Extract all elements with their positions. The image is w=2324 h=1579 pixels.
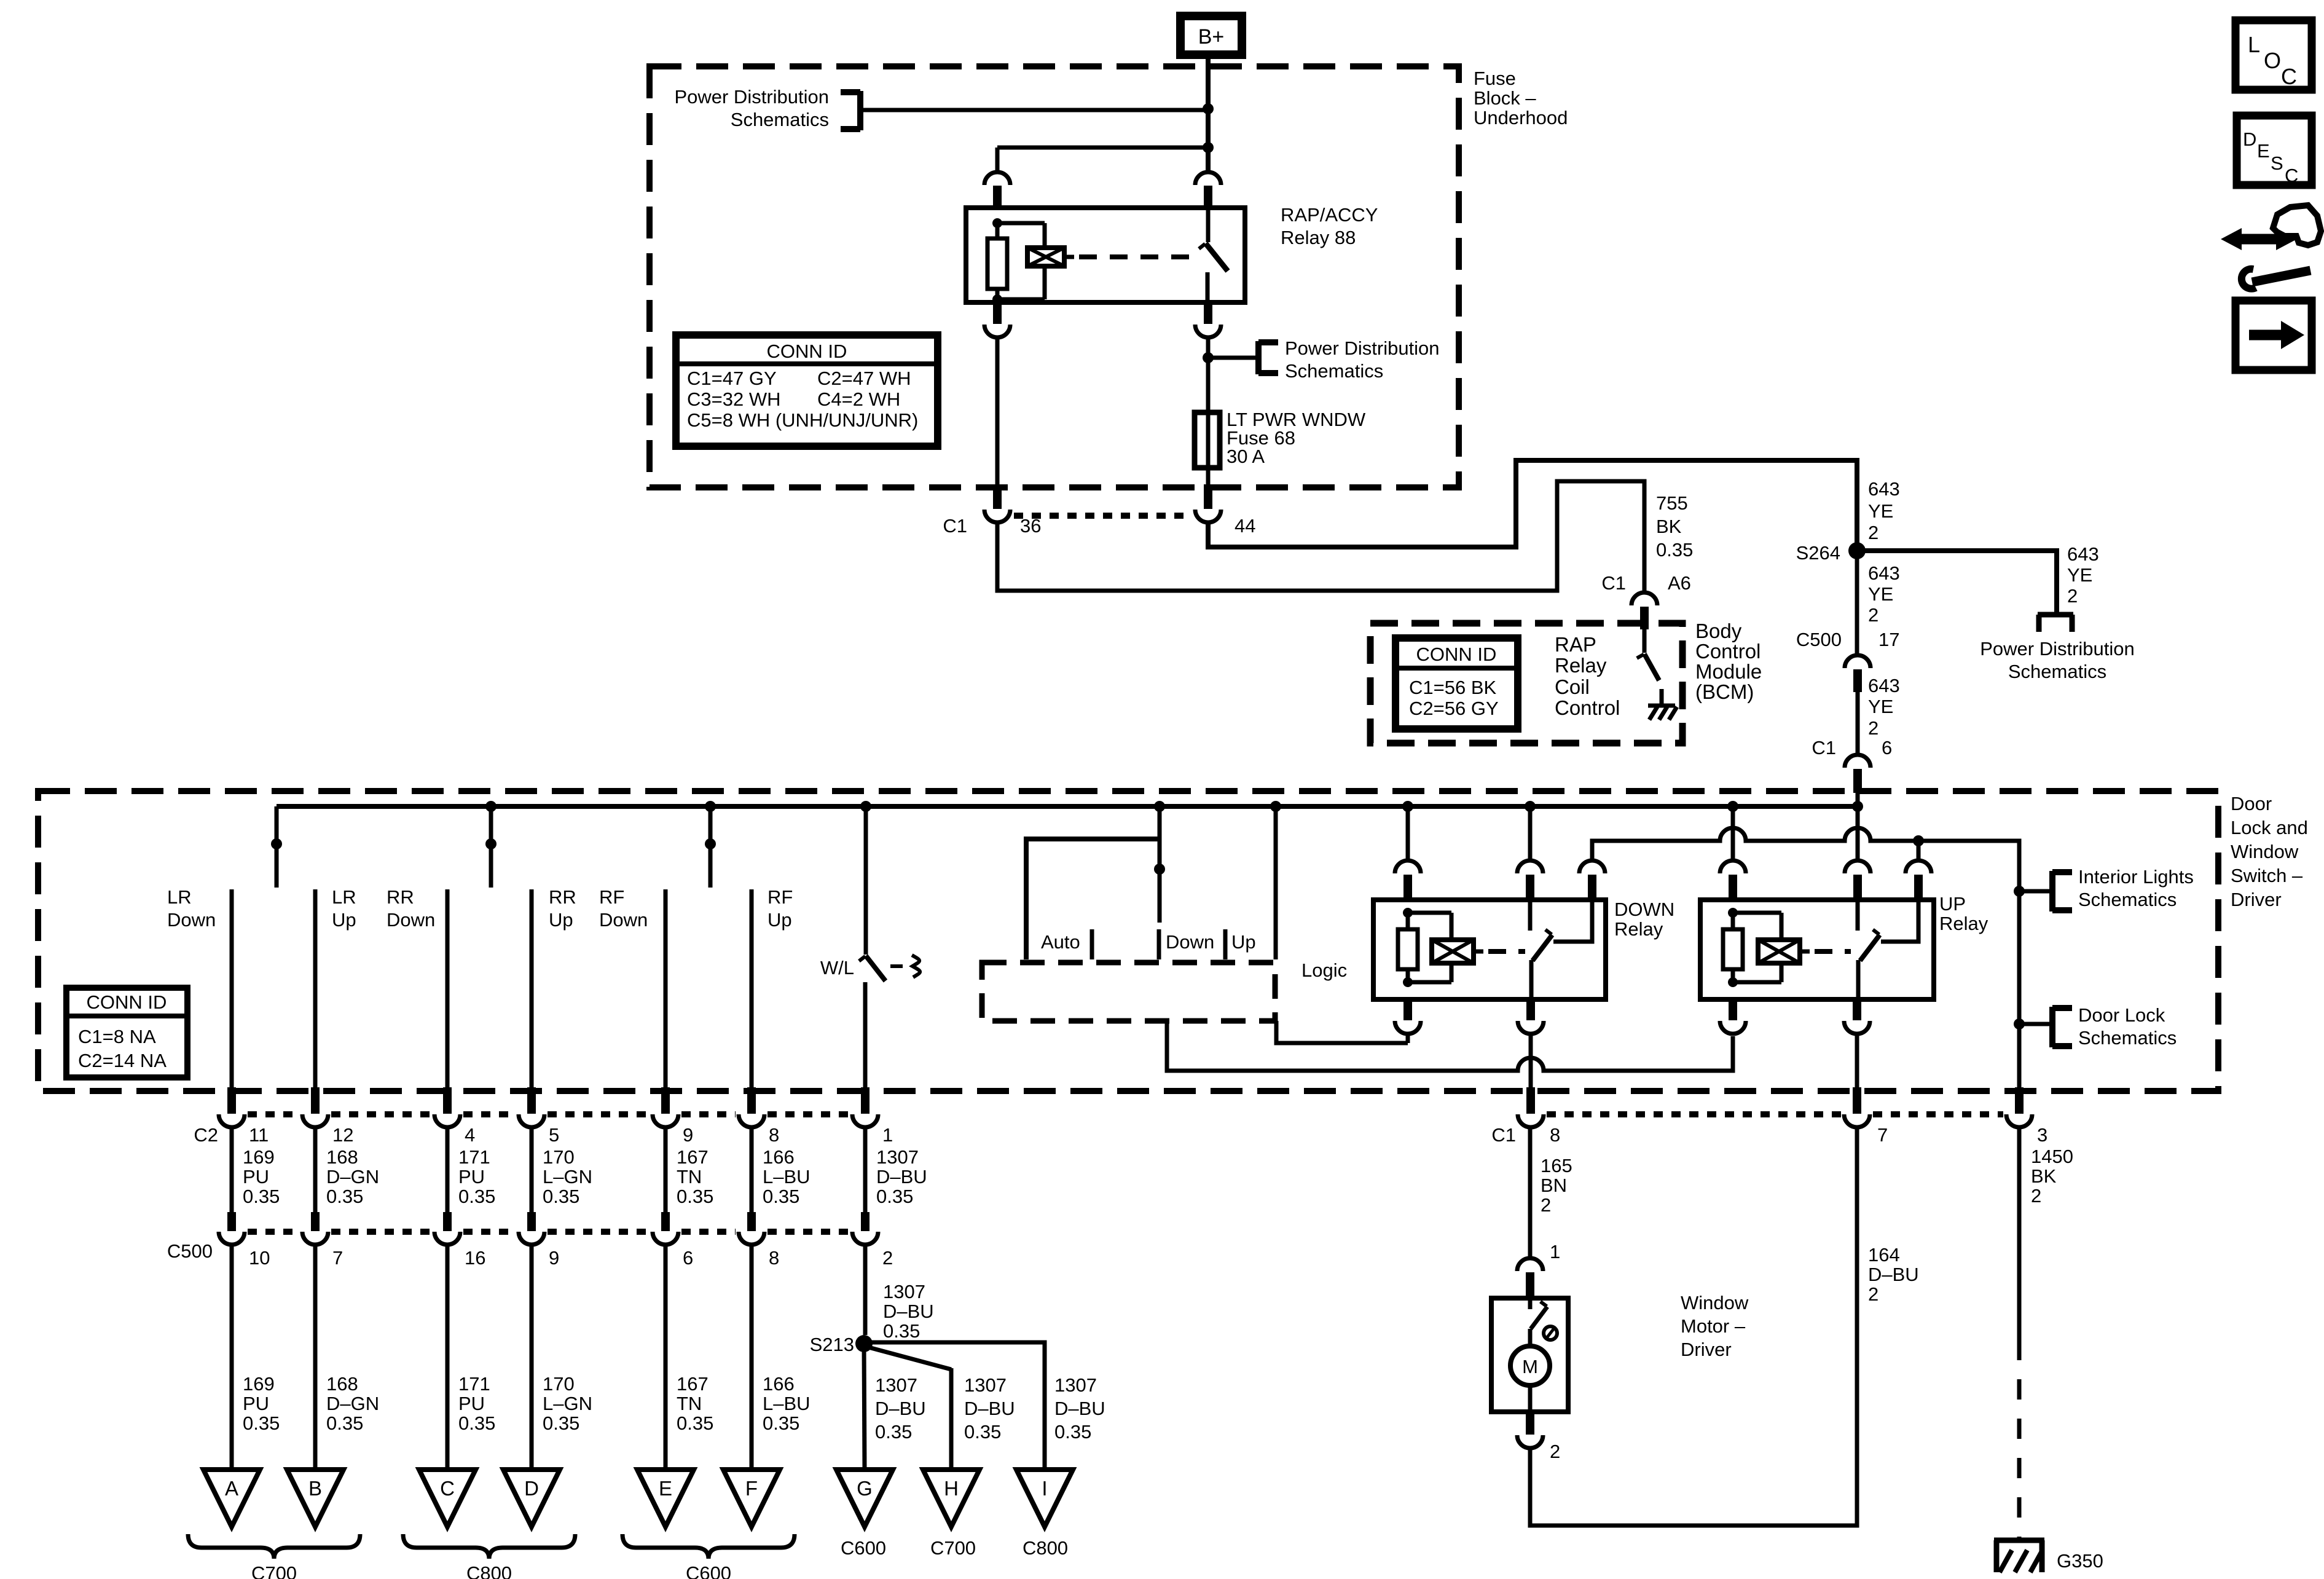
svg-text:0.35: 0.35 <box>883 1320 920 1342</box>
svg-text:Logic: Logic <box>1301 959 1347 981</box>
svg-text:0.35: 0.35 <box>458 1186 495 1207</box>
svg-text:168: 168 <box>326 1373 358 1395</box>
svg-text:C800: C800 <box>466 1562 512 1579</box>
svg-text:Schematics: Schematics <box>1285 360 1383 382</box>
svg-text:C1=8 NA: C1=8 NA <box>78 1026 156 1047</box>
svg-text:17: 17 <box>1878 629 1899 650</box>
svg-text:Door: Door <box>2231 793 2272 814</box>
svg-text:8: 8 <box>769 1247 779 1269</box>
svg-text:9: 9 <box>549 1247 559 1269</box>
svg-text:8: 8 <box>769 1124 779 1146</box>
svg-text:C600: C600 <box>841 1537 886 1559</box>
svg-text:C1=56 BK: C1=56 BK <box>1409 677 1497 698</box>
svg-text:3: 3 <box>2037 1124 2047 1146</box>
svg-text:2: 2 <box>1868 522 1878 543</box>
svg-text:Up: Up <box>549 909 573 931</box>
svg-text:36: 36 <box>1020 515 1041 537</box>
svg-text:755: 755 <box>1656 492 1688 514</box>
svg-text:C800: C800 <box>1023 1537 1068 1559</box>
svg-text:2: 2 <box>1868 1283 1878 1305</box>
svg-text:643: 643 <box>1868 562 1900 584</box>
svg-text:6: 6 <box>1882 737 1892 758</box>
svg-text:D–BU: D–BU <box>876 1166 927 1187</box>
svg-text:A: A <box>225 1477 238 1500</box>
svg-text:RF: RF <box>599 886 624 908</box>
svg-text:D–BU: D–BU <box>964 1398 1015 1419</box>
svg-text:D–GN: D–GN <box>326 1393 379 1414</box>
svg-text:Power Distribution: Power Distribution <box>674 86 829 108</box>
svg-text:Relay 88: Relay 88 <box>1281 227 1356 248</box>
svg-text:C2=47 WH: C2=47 WH <box>817 368 911 389</box>
svg-text:0.35: 0.35 <box>763 1186 799 1207</box>
svg-text:8: 8 <box>1550 1124 1560 1146</box>
svg-text:Down: Down <box>1166 931 1214 953</box>
svg-text:G350: G350 <box>2057 1550 2103 1572</box>
svg-text:1307: 1307 <box>964 1374 1007 1396</box>
svg-text:L–GN: L–GN <box>543 1393 592 1414</box>
svg-text:Block –: Block – <box>1474 87 1536 109</box>
svg-text:Body: Body <box>1695 620 1742 642</box>
svg-text:G: G <box>857 1477 873 1500</box>
svg-text:643: 643 <box>2067 543 2099 565</box>
svg-text:166: 166 <box>763 1373 795 1395</box>
svg-text:F: F <box>745 1477 758 1500</box>
svg-text:2: 2 <box>1541 1194 1551 1216</box>
svg-text:LR: LR <box>332 886 356 908</box>
svg-text:C: C <box>440 1477 455 1500</box>
svg-text:0.35: 0.35 <box>243 1412 280 1434</box>
svg-text:Window: Window <box>2231 841 2299 862</box>
svg-text:0.35: 0.35 <box>677 1186 713 1207</box>
svg-text:7: 7 <box>332 1247 343 1269</box>
svg-text:0.35: 0.35 <box>875 1421 912 1443</box>
svg-text:C1=47 GY: C1=47 GY <box>687 368 777 389</box>
svg-text:D: D <box>2243 128 2256 150</box>
svg-text:169: 169 <box>243 1146 275 1168</box>
svg-text:S: S <box>2271 152 2283 174</box>
svg-text:L–BU: L–BU <box>763 1166 811 1187</box>
svg-text:YE: YE <box>1868 500 1893 522</box>
svg-text:164: 164 <box>1868 1244 1900 1266</box>
svg-text:5: 5 <box>549 1124 559 1146</box>
svg-text:L–GN: L–GN <box>543 1166 592 1187</box>
svg-text:YE: YE <box>2067 564 2092 586</box>
svg-text:4: 4 <box>465 1124 475 1146</box>
svg-text:C2=56 GY: C2=56 GY <box>1409 698 1499 719</box>
svg-text:RAP/ACCY: RAP/ACCY <box>1281 204 1378 226</box>
svg-text:Door Lock: Door Lock <box>2078 1004 2165 1026</box>
svg-text:C4=2 WH: C4=2 WH <box>817 388 900 410</box>
svg-text:H: H <box>944 1477 959 1500</box>
svg-text:E: E <box>659 1477 672 1500</box>
svg-text:M: M <box>1522 1356 1538 1377</box>
svg-text:C1: C1 <box>943 515 967 537</box>
svg-text:B: B <box>308 1477 322 1500</box>
svg-text:W/L: W/L <box>820 957 854 979</box>
svg-text:0.35: 0.35 <box>964 1421 1001 1443</box>
svg-text:30 A: 30 A <box>1227 446 1265 467</box>
svg-text:1307: 1307 <box>883 1281 925 1302</box>
svg-text:C2=14 NA: C2=14 NA <box>78 1050 167 1071</box>
svg-text:CONN ID: CONN ID <box>1416 644 1497 665</box>
svg-text:Coil: Coil <box>1555 675 1590 698</box>
svg-text:UP: UP <box>1939 893 1966 915</box>
svg-text:C2: C2 <box>194 1124 218 1146</box>
svg-text:643: 643 <box>1868 675 1900 696</box>
svg-text:C3=32 WH: C3=32 WH <box>687 388 780 410</box>
svg-text:1307: 1307 <box>875 1374 917 1396</box>
svg-text:Auto: Auto <box>1041 931 1080 953</box>
svg-text:D–BU: D–BU <box>875 1398 926 1419</box>
svg-text:643: 643 <box>1868 478 1900 500</box>
svg-text:Down: Down <box>599 909 648 931</box>
svg-text:RF: RF <box>767 886 793 908</box>
svg-text:169: 169 <box>243 1373 275 1395</box>
svg-text:C700: C700 <box>251 1562 297 1579</box>
svg-text:Up: Up <box>332 909 356 931</box>
svg-text:0.35: 0.35 <box>543 1412 579 1434</box>
svg-text:Schematics: Schematics <box>2078 889 2177 910</box>
svg-text:DOWN: DOWN <box>1614 899 1674 920</box>
svg-text:C1: C1 <box>1601 572 1626 594</box>
svg-text:2: 2 <box>1550 1441 1560 1462</box>
svg-text:1307: 1307 <box>876 1146 919 1168</box>
svg-text:S213: S213 <box>810 1334 854 1355</box>
svg-text:11: 11 <box>249 1124 269 1146</box>
svg-text:168: 168 <box>326 1146 358 1168</box>
svg-text:I: I <box>1042 1477 1047 1500</box>
svg-text:Interior Lights: Interior Lights <box>2078 866 2194 888</box>
svg-text:Lock and: Lock and <box>2231 817 2308 838</box>
svg-text:D: D <box>524 1477 539 1500</box>
svg-text:0.35: 0.35 <box>763 1412 799 1434</box>
svg-text:C500: C500 <box>1796 629 1842 650</box>
svg-text:Power Distribution: Power Distribution <box>1285 337 1440 359</box>
svg-text:166: 166 <box>763 1146 795 1168</box>
svg-text:Control: Control <box>1695 640 1761 663</box>
svg-text:RR: RR <box>387 886 414 908</box>
svg-text:0.35: 0.35 <box>677 1412 713 1434</box>
svg-text:D–BU: D–BU <box>883 1301 934 1322</box>
svg-text:TN: TN <box>677 1393 702 1414</box>
svg-text:0.35: 0.35 <box>326 1186 363 1207</box>
svg-text:0.35: 0.35 <box>1054 1421 1091 1443</box>
svg-text:0.35: 0.35 <box>1656 539 1693 561</box>
svg-text:Up: Up <box>1231 931 1256 953</box>
svg-text:C5=8 WH (UNH/UNJ/UNR): C5=8 WH (UNH/UNJ/UNR) <box>687 409 918 431</box>
svg-text:L–BU: L–BU <box>763 1393 811 1414</box>
svg-text:Driver: Driver <box>1681 1339 1732 1360</box>
svg-text:6: 6 <box>683 1247 693 1269</box>
svg-text:D–BU: D–BU <box>1054 1398 1105 1419</box>
svg-text:44: 44 <box>1235 515 1255 537</box>
svg-text:2: 2 <box>2031 1185 2041 1207</box>
svg-text:170: 170 <box>543 1373 575 1395</box>
svg-text:Underhood: Underhood <box>1474 107 1568 128</box>
svg-text:Switch –: Switch – <box>2231 865 2303 886</box>
svg-text:Down: Down <box>167 909 216 931</box>
svg-text:167: 167 <box>677 1373 709 1395</box>
svg-text:Relay: Relay <box>1939 913 1988 934</box>
svg-text:Driver: Driver <box>2231 889 2282 910</box>
svg-text:E: E <box>2257 140 2270 162</box>
svg-text:2: 2 <box>1868 717 1878 739</box>
svg-text:BK: BK <box>1656 516 1682 537</box>
svg-text:BK: BK <box>2031 1165 2057 1187</box>
svg-text:(BCM): (BCM) <box>1695 680 1754 703</box>
svg-text:9: 9 <box>683 1124 693 1146</box>
svg-text:B+: B+ <box>1198 25 1225 49</box>
svg-text:Fuse: Fuse <box>1474 68 1516 89</box>
svg-text:C1: C1 <box>1491 1124 1516 1146</box>
svg-text:16: 16 <box>465 1247 485 1269</box>
svg-text:170: 170 <box>543 1146 575 1168</box>
svg-text:171: 171 <box>458 1373 490 1395</box>
svg-text:0.35: 0.35 <box>326 1412 363 1434</box>
svg-text:10: 10 <box>249 1247 270 1269</box>
svg-text:Schematics: Schematics <box>2008 661 2106 682</box>
svg-text:RR: RR <box>549 886 576 908</box>
svg-text:PU: PU <box>458 1393 485 1414</box>
svg-text:LR: LR <box>167 886 192 908</box>
svg-text:C: C <box>2285 165 2298 186</box>
svg-text:Relay: Relay <box>1614 918 1663 940</box>
svg-text:12: 12 <box>332 1124 353 1146</box>
svg-text:Control: Control <box>1555 696 1620 719</box>
svg-text:2: 2 <box>1868 604 1878 626</box>
svg-text:C600: C600 <box>686 1562 731 1579</box>
svg-text:171: 171 <box>458 1146 490 1168</box>
svg-text:Power Distribution: Power Distribution <box>1980 638 2135 660</box>
svg-text:YE: YE <box>1868 583 1893 605</box>
svg-text:RAP: RAP <box>1555 633 1596 656</box>
svg-text:O: O <box>2264 48 2281 73</box>
svg-text:Window: Window <box>1681 1292 1749 1313</box>
svg-text:Up: Up <box>767 909 792 931</box>
svg-text:A6: A6 <box>1668 572 1691 594</box>
svg-text:1: 1 <box>882 1124 893 1146</box>
svg-text:CONN ID: CONN ID <box>87 991 167 1013</box>
svg-text:1307: 1307 <box>1054 1374 1097 1396</box>
svg-text:Schematics: Schematics <box>731 109 829 130</box>
svg-text:D–GN: D–GN <box>326 1166 379 1187</box>
svg-text:PU: PU <box>458 1166 485 1187</box>
svg-text:Module: Module <box>1695 660 1762 683</box>
svg-text:165: 165 <box>1541 1155 1572 1176</box>
svg-text:C500: C500 <box>167 1240 213 1262</box>
svg-text:2: 2 <box>2067 585 2078 607</box>
svg-text:0.35: 0.35 <box>243 1186 280 1207</box>
svg-text:BN: BN <box>1541 1175 1567 1196</box>
svg-text:0.35: 0.35 <box>458 1412 495 1434</box>
svg-text:C1: C1 <box>1812 737 1836 758</box>
svg-text:L: L <box>2248 32 2260 57</box>
svg-text:7: 7 <box>1877 1124 1888 1146</box>
svg-text:2: 2 <box>882 1247 893 1269</box>
svg-text:TN: TN <box>677 1166 702 1187</box>
svg-text:1: 1 <box>1550 1241 1560 1262</box>
svg-text:CONN ID: CONN ID <box>767 341 847 362</box>
svg-text:Relay: Relay <box>1555 654 1607 677</box>
svg-text:Down: Down <box>387 909 435 931</box>
svg-text:167: 167 <box>677 1146 709 1168</box>
svg-text:C700: C700 <box>930 1537 976 1559</box>
svg-text:YE: YE <box>1868 696 1893 717</box>
svg-text:PU: PU <box>243 1393 269 1414</box>
svg-text:S264: S264 <box>1796 542 1840 564</box>
svg-text:Motor –: Motor – <box>1681 1315 1746 1337</box>
svg-text:1450: 1450 <box>2031 1146 2073 1167</box>
svg-text:0.35: 0.35 <box>876 1186 913 1207</box>
svg-text:PU: PU <box>243 1166 269 1187</box>
svg-text:Schematics: Schematics <box>2078 1027 2177 1049</box>
svg-text:C: C <box>2281 64 2297 89</box>
svg-text:D–BU: D–BU <box>1868 1264 1919 1285</box>
svg-text:0.35: 0.35 <box>543 1186 579 1207</box>
